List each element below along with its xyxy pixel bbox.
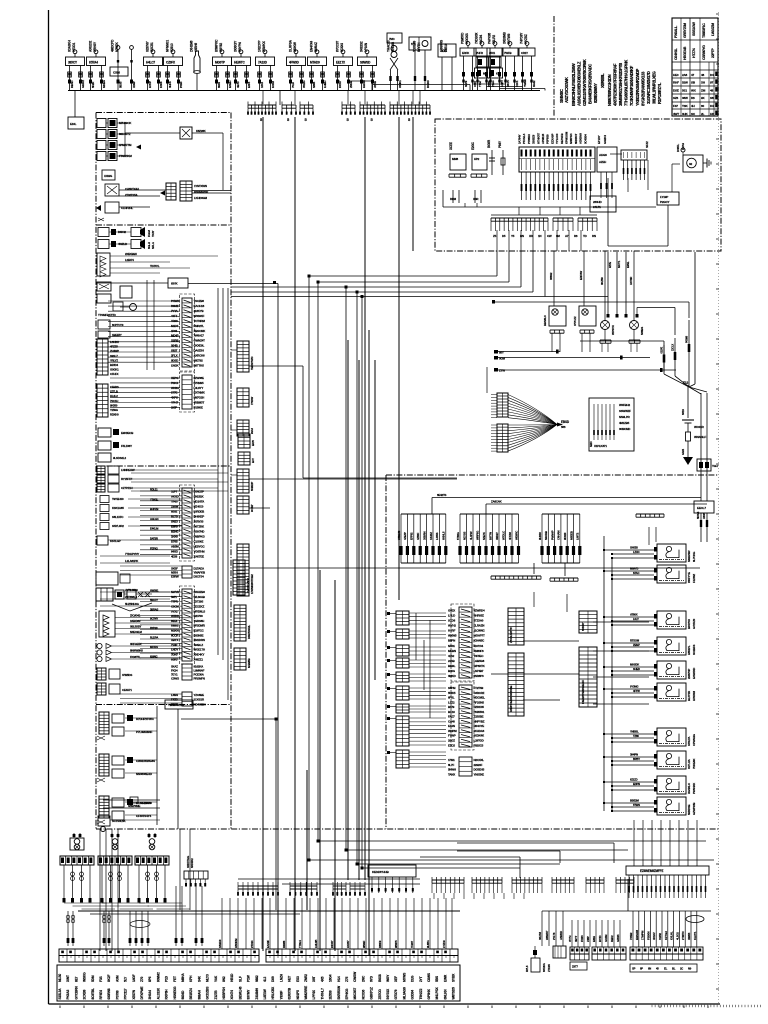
svg-text:YRLYZ: YRLYZ	[110, 358, 118, 362]
svg-text:9ZH0C0: 9ZH0C0	[194, 504, 204, 508]
svg-text:S8WSD: S8WSD	[360, 61, 371, 65]
svg-text:2NC: 2NC	[361, 975, 365, 982]
svg-text:GS2K4: GS2K4	[603, 135, 607, 144]
svg-text:SSS1GW: SSS1GW	[692, 22, 696, 36]
svg-text:38W: 38W	[682, 96, 688, 100]
svg-text:GZWPWB: GZWPWB	[692, 803, 696, 815]
BR connector blocks column1	[387, 611, 446, 768]
svg-text:GP9HX: GP9HX	[427, 988, 431, 999]
svg-text:KZTGH: KZTGH	[664, 931, 668, 940]
svg-text:YNBBL: YNBBL	[630, 730, 639, 734]
svg-text:5T5: 5T5	[411, 42, 416, 46]
right border dotted with ticks	[716, 12, 719, 1004]
top row component F8 (fuse)	[232, 40, 252, 91]
svg-text:39M59R51735HKF52DP7B: 39M59R51735HKF52DP7B	[618, 63, 623, 106]
svg-text:M69YB: M69YB	[630, 567, 638, 571]
svg-text:MH: MH	[483, 72, 487, 76]
svg-text:NN9LPR: NN9LPR	[619, 415, 631, 419]
svg-text:Z15SBE: Z15SBE	[474, 715, 484, 719]
svg-text:E2GC: E2GC	[471, 141, 475, 150]
svg-text:EAX9F: EAX9F	[266, 940, 270, 948]
svg-text:48: 48	[701, 73, 705, 77]
junction tags right area	[494, 350, 676, 373]
wires below combs	[434, 893, 524, 899]
svg-text:LW2K: LW2K	[171, 363, 179, 367]
top row component F11 (fuse)	[308, 41, 328, 91]
svg-text:N01P5: N01P5	[296, 990, 300, 999]
svg-text:XM1DRN: XM1DRN	[194, 638, 205, 642]
svg-text:EECL7: EECL7	[697, 506, 706, 510]
svg-text:YNS5XE: YNS5XE	[474, 772, 485, 776]
section C middle connector ladders	[171, 485, 206, 706]
top row component F2 (fuse)	[87, 41, 107, 91]
svg-text:WGE1TH: WGE1TH	[194, 648, 205, 652]
component drops under trees	[66, 886, 203, 946]
svg-text:G6EX: G6EX	[448, 608, 455, 612]
svg-text:8E7: 8E7	[74, 976, 78, 982]
svg-text:01RXTB: 01RXTB	[288, 987, 292, 999]
svg-text:P05M6: P05M6	[686, 335, 689, 343]
svg-text:B0T7N: B0T7N	[488, 532, 492, 540]
svg-text:7SC1H: 7SC1H	[110, 399, 118, 403]
top row component F20 (fuse_hi)	[502, 31, 519, 90]
svg-text:SHED: SHED	[633, 667, 640, 671]
svg-text:A7: A7	[565, 234, 569, 238]
svg-text:4X87RZ3E99H7F55F8RAF: 4X87RZ3E99H7F55F8RAF	[613, 63, 618, 106]
svg-text:H4LC7: H4LC7	[146, 61, 155, 65]
svg-text:KPH: KPH	[189, 975, 193, 982]
svg-text:AKXD: AKXD	[171, 494, 179, 498]
svg-text:44FT: 44FT	[171, 314, 177, 318]
svg-text:L3L6YY: L3L6YY	[194, 386, 204, 390]
svg-text:2T02TS5A: 2T02TS5A	[125, 193, 138, 197]
svg-text:22920F: 22920F	[474, 763, 483, 767]
svg-text:LW10ZM: LW10ZM	[711, 23, 715, 36]
svg-text:ZECEKZ: ZECEKZ	[194, 604, 205, 608]
svg-text:P1560E: P1560E	[194, 405, 203, 409]
fused wire column groups	[397, 514, 582, 576]
svg-text:RYL5: RYL5	[525, 965, 529, 972]
bottom horizontal feed wires	[238, 879, 420, 884]
svg-text:T0F5EC: T0F5EC	[474, 654, 485, 658]
svg-text:6CCR: 6CCR	[171, 633, 179, 637]
svg-text:TH7HL7: TH7HL7	[320, 988, 324, 1000]
svg-text:GRW4: GRW4	[616, 934, 620, 942]
section C ladder feed wires	[120, 488, 182, 704]
svg-text:0K2F: 0K2F	[107, 975, 111, 982]
svg-text:SZ6: SZ6	[673, 96, 679, 100]
svg-text:C64H1L: C64H1L	[674, 47, 678, 60]
svg-text:ANM1D: ANM1D	[559, 931, 563, 940]
svg-text:RTSGM: RTSGM	[630, 639, 640, 643]
svg-text:5T86G: 5T86G	[456, 532, 460, 540]
svg-text:Z416MH: Z416MH	[255, 987, 259, 999]
svg-text:YWM9: YWM9	[523, 79, 527, 87]
svg-text:KXLHL: KXLHL	[670, 931, 674, 940]
svg-text:NFLA: NFLA	[151, 242, 155, 249]
svg-text:KS06: KS06	[159, 81, 163, 88]
svg-text:XAWG: XAWG	[104, 174, 113, 178]
svg-text:RN: RN	[592, 234, 596, 238]
svg-text:MDCM1L: MDCM1L	[474, 696, 486, 700]
svg-text:RRM: RRM	[450, 197, 457, 201]
svg-text:2M37NP: 2M37NP	[687, 669, 691, 679]
section A lower cluster with connector X1	[96, 170, 231, 221]
right area routing wires	[492, 297, 689, 373]
svg-text:C8CM: C8CM	[171, 604, 179, 608]
svg-text:HE5YGC: HE5YGC	[194, 544, 206, 548]
svg-text:0DB: 0DB	[441, 49, 448, 53]
svg-text:SN131K: SN131K	[194, 494, 205, 498]
svg-text:38XCY: 38XCY	[68, 61, 78, 65]
svg-text:B51RZ4: B51RZ4	[189, 988, 193, 999]
svg-text:F1Z38Z: F1Z38Z	[692, 574, 696, 583]
svg-text:HBDRM: HBDRM	[234, 938, 238, 948]
svg-text:63YK: 63YK	[171, 282, 179, 286]
svg-text:W7DLC: W7DLC	[501, 531, 505, 540]
svg-text:67AC: 67AC	[633, 571, 639, 575]
svg-text:Z46P: Z46P	[586, 936, 590, 942]
svg-text:PS799: PS799	[115, 990, 119, 999]
svg-text:L3M4: L3M4	[171, 693, 178, 697]
svg-text:WP6XTK: WP6XTK	[474, 664, 486, 668]
svg-text:B2NG: B2NG	[171, 529, 179, 533]
svg-text:S4K: S4K	[197, 975, 201, 982]
svg-text:3BYT: 3BYT	[574, 935, 578, 942]
section B internal verticals	[147, 280, 228, 700]
svg-text:9Y3MG: 9Y3MG	[630, 685, 638, 689]
svg-text:YAK: YAK	[214, 975, 218, 982]
svg-text:0MKD: 0MKD	[448, 674, 456, 678]
bottom-right dashed box left border	[385, 475, 387, 829]
svg-text:D6TZRK: D6TZRK	[194, 524, 205, 528]
svg-text:CXL6: CXL6	[113, 71, 120, 75]
svg-text:BL: BL	[672, 967, 676, 971]
svg-text:TF937: TF937	[410, 940, 414, 948]
svg-text:ALS13X: ALS13X	[156, 987, 160, 999]
svg-text:HX337: HX337	[346, 940, 350, 948]
svg-text:M5EEB: M5EEB	[569, 531, 573, 540]
section C bar component row	[96, 588, 152, 611]
svg-text:MHSDK: MHSDK	[630, 663, 639, 667]
svg-text:EWR: EWR	[443, 974, 447, 982]
svg-text:A3XBNH: A3XBNH	[579, 133, 583, 144]
svg-text:E61H: E61H	[592, 936, 596, 942]
svg-text:E9NL: E9NL	[626, 261, 630, 268]
svg-text:GWNZ4T: GWNZ4T	[194, 339, 206, 343]
svg-text:EFF62: EFF62	[410, 532, 414, 540]
svg-text:X9D27: X9D27	[495, 532, 499, 540]
svg-text:7WFB: 7WFB	[504, 51, 512, 55]
svg-text:E8R0: E8R0	[171, 524, 178, 528]
svg-text:MPZWLS: MPZWLS	[194, 609, 206, 613]
svg-text:0GM: 0GM	[499, 357, 506, 361]
svg-text:M9HA: M9HA	[181, 973, 185, 982]
svg-text:E0F5: E0F5	[247, 81, 251, 88]
relay unit column (10 relays)	[603, 544, 696, 815]
ignition coil tree T1	[60, 833, 115, 909]
svg-text:D5: D5	[502, 234, 506, 238]
svg-text:CH019LH3CR: CH019LH3CR	[246, 578, 250, 593]
svg-text:K4: K4	[710, 104, 714, 108]
svg-text:9B99F: 9B99F	[362, 940, 366, 948]
svg-text:PX6ALL: PX6ALL	[674, 25, 678, 38]
svg-text:WPSYX: WPSYX	[611, 325, 615, 335]
svg-text:9C7MY: 9C7MY	[150, 617, 158, 621]
svg-text:1DT29S: 1DT29S	[194, 600, 204, 604]
svg-text:HWX61: HWX61	[150, 589, 159, 593]
svg-text:N8957B8NG1H1DN: N8957B8NG1H1DN	[607, 74, 612, 106]
svg-text:APM115: APM115	[541, 133, 545, 144]
bottom horizontal bus wires	[78, 911, 460, 914]
svg-text:TK3Y: TK3Y	[151, 230, 155, 237]
svg-text:BEWLH6: BEWLH6	[238, 986, 242, 999]
svg-text:FEPX2: FEPX2	[150, 546, 158, 550]
battery B1 with fuse and ground	[681, 385, 706, 465]
top row component F6 (bottle)	[190, 40, 201, 90]
svg-text:6FXL: 6FXL	[448, 696, 455, 700]
svg-text:HP2: HP2	[474, 157, 480, 161]
svg-text:FS9XM: FS9XM	[646, 931, 650, 940]
svg-text:SYBX: SYBX	[452, 973, 456, 982]
svg-text:ER70: ER70	[251, 440, 255, 446]
svg-text:5B3S: 5B3S	[119, 81, 123, 88]
svg-text:6S92: 6S92	[171, 509, 178, 513]
svg-text:3N4PN: 3N4PN	[630, 753, 638, 757]
svg-text:WC01R: WC01R	[694, 425, 705, 429]
svg-text:NH31: NH31	[448, 644, 455, 648]
svg-text:RY15FFF: RY15FFF	[121, 477, 132, 481]
svg-text:E10L: E10L	[70, 122, 77, 126]
svg-text:086S2: 086S2	[549, 272, 553, 280]
svg-text:F82SC5: F82SC5	[474, 743, 484, 747]
svg-text:2TMTN: 2TMTN	[681, 931, 685, 940]
CN9 to bottom bus wire	[542, 879, 711, 911]
svg-text:S8: S8	[710, 96, 714, 100]
wires from middle blocks	[180, 350, 700, 718]
svg-text:LNZH: LNZH	[279, 973, 283, 982]
svg-text:LGB5G8: LGB5G8	[474, 659, 485, 663]
svg-text:E1SN: E1SN	[448, 724, 455, 728]
svg-text:D4027DSF2L: D4027DSF2L	[247, 625, 251, 639]
svg-text:B0PN: B0PN	[448, 639, 455, 643]
svg-text:P1W: P1W	[247, 974, 251, 982]
svg-text:ZRG9: ZRG9	[349, 81, 353, 88]
svg-text:EZ8WEM9ZMFPZ: EZ8WEM9ZMFPZ	[640, 869, 664, 873]
svg-text:0KZ59: 0KZ59	[600, 277, 604, 285]
starter circuit boxes	[694, 393, 718, 542]
svg-text:Z127B: Z127B	[214, 990, 218, 1000]
svg-text:5ZE7K: 5ZE7K	[482, 532, 486, 540]
svg-text:ES3: ES3	[296, 976, 300, 982]
main bottom connector strip mid	[266, 949, 458, 962]
svg-text:RHF: RHF	[673, 81, 679, 85]
svg-text:XSR: XSR	[473, 197, 478, 201]
svg-text:2CXB9: 2CXB9	[83, 990, 87, 1000]
svg-text:Z70: Z70	[140, 977, 144, 982]
svg-text:5NCP7: 5NCP7	[150, 598, 158, 602]
notes separator dashed line	[553, 16, 555, 117]
svg-text:6XK9X2: 6XK9X2	[190, 858, 194, 868]
svg-text:KSK1A85: KSK1A85	[112, 506, 124, 510]
svg-text:2YT: 2YT	[419, 976, 423, 982]
title block table	[672, 18, 718, 116]
svg-text:XEREBL: XEREBL	[600, 73, 605, 88]
section A fuse rows cluster	[97, 119, 223, 191]
svg-text:2SGZ: 2SGZ	[448, 739, 455, 743]
svg-text:N2CXXL: N2CXXL	[474, 758, 485, 762]
svg-text:GHWZ: GHWZ	[81, 80, 85, 88]
svg-text:TSK: TSK	[682, 104, 689, 108]
svg-text:31GNRC19MZM17D: 31GNRC19MZM17D	[646, 71, 651, 104]
svg-text:TD7AYL: TD7AYL	[150, 264, 160, 268]
svg-text:XN147: XN147	[652, 932, 656, 940]
ignition coil tree T2	[98, 833, 153, 909]
svg-text:WHK1: WHK1	[398, 80, 402, 88]
svg-text:11CWNC: 11CWNC	[474, 629, 486, 633]
svg-text:T9YEHS0: T9YEHS0	[112, 497, 124, 501]
svg-text:5DM: 5DM	[91, 975, 95, 982]
svg-text:S15L3A: S15L3A	[58, 988, 62, 1000]
svg-text:7C4KN0WP16XMAD8KF: 7C4KN0WP16XMAD8KF	[629, 65, 634, 106]
svg-text:WB1M8: WB1M8	[397, 530, 401, 540]
svg-text:DAT3R: DAT3R	[150, 537, 158, 541]
svg-text:8NWW9K6: 8NWW9K6	[130, 649, 143, 653]
svg-text:NZRK05: NZRK05	[474, 705, 485, 709]
svg-text:GASM: GASM	[604, 934, 608, 942]
svg-text:RM6S: RM6S	[171, 624, 179, 628]
svg-text:9ZW38E: 9ZW38E	[194, 376, 204, 380]
svg-text:8ABM5B: 8ABM5B	[247, 658, 251, 668]
svg-text:EE1TX: EE1TX	[336, 61, 346, 65]
svg-text:DSE: DSE	[673, 88, 679, 92]
svg-text:TBEWYM7D: TBEWYM7D	[250, 356, 254, 370]
section D bottom rows	[98, 797, 160, 832]
svg-text:793BLZ: 793BLZ	[194, 643, 204, 647]
svg-text:WSKG: WSKG	[83, 972, 87, 982]
svg-text:PNW531: PNW531	[474, 710, 485, 714]
svg-text:7A13D: 7A13D	[258, 61, 268, 65]
svg-text:ND1HTA: ND1HTA	[194, 499, 206, 503]
svg-text:M48PK4: M48PK4	[569, 133, 573, 144]
svg-text:57RM95: 57RM95	[194, 381, 204, 385]
internal wiring of ECU section	[443, 154, 680, 246]
svg-text:48: 48	[710, 88, 714, 92]
svg-text:X46ZZ1: X46ZZ1	[194, 657, 204, 661]
svg-text:ZH4WP: ZH4WP	[110, 349, 119, 353]
svg-text:9K550: 9K550	[110, 403, 118, 407]
svg-text:CH3RTX4H: CH3RTX4H	[125, 187, 139, 191]
svg-text:70L6: 70L6	[291, 82, 295, 88]
svg-text:KP: KP	[496, 72, 500, 76]
wire drops to main bottom strip	[218, 898, 452, 949]
svg-text:AGLG4: AGLG4	[150, 517, 159, 521]
svg-text:SSWWZF: SSWWZF	[619, 409, 631, 413]
svg-text:P2GCY: P2GCY	[660, 200, 669, 204]
bottom wide component box	[368, 865, 416, 893]
svg-text:0WZG: 0WZG	[302, 80, 306, 88]
svg-text:XCEE: XCEE	[449, 142, 453, 150]
svg-text:ZEM7: ZEM7	[633, 643, 640, 647]
svg-text:D46FL: D46FL	[676, 144, 680, 152]
svg-text:WC7F: WC7F	[506, 79, 510, 87]
svg-text:3SBRN: 3SBRN	[422, 531, 426, 540]
svg-text:RLDPA: RLDPA	[150, 636, 158, 640]
svg-text:TGH: TGH	[712, 464, 718, 468]
svg-text:C1G00Z: C1G00Z	[194, 539, 204, 543]
svg-text:01TLXA: 01TLXA	[687, 758, 691, 769]
svg-text:E12: E12	[683, 381, 688, 385]
svg-text:38LWL1RMP2LXEG: 38LWL1RMP2LXEG	[652, 71, 657, 104]
staircase wire runs from ECU to bottom connectors	[231, 251, 714, 870]
svg-text:3BRAS: 3BRAS	[150, 607, 159, 611]
ECU main connector box U1	[518, 131, 596, 200]
svg-text:EPHKG: EPHKG	[345, 988, 349, 999]
svg-text:YBNWCLSS: YBNWCLSS	[168, 703, 184, 707]
svg-text:BN: BN	[520, 234, 524, 238]
svg-text:DH8XEP: DH8XEP	[194, 514, 205, 518]
top row component F19 (fuse_hi)	[487, 33, 504, 91]
svg-text:WXAP7T: WXAP7T	[474, 634, 485, 638]
svg-text:RER2: RER2	[610, 935, 614, 942]
svg-text:B04YK0: B04YK0	[687, 619, 691, 629]
svg-text:BLTD: BLTD	[171, 514, 178, 518]
svg-text:H551PL: H551PL	[687, 645, 691, 655]
svg-text:9XDK4K: 9XDK4K	[474, 734, 485, 738]
section C top component rows	[97, 466, 228, 545]
svg-text:MG0TP: MG0TP	[215, 61, 225, 65]
bottom label box left	[57, 965, 460, 1001]
bottom right corner wires	[420, 829, 614, 878]
svg-text:P786RX: P786RX	[527, 134, 531, 144]
svg-text:4FW9D: 4FW9D	[289, 61, 300, 65]
svg-text:ERF3W: ERF3W	[579, 271, 583, 280]
svg-text:WRF6G: WRF6G	[475, 531, 479, 540]
section B switch cluster	[97, 282, 137, 338]
svg-text:M1KN: M1KN	[171, 628, 179, 632]
svg-text:L2E074: L2E074	[125, 258, 134, 262]
svg-text:1YNTXWN: 1YNTXWN	[194, 184, 207, 188]
svg-text:18WH0: 18WH0	[218, 939, 222, 948]
top-right dashed box	[435, 119, 721, 251]
svg-text:H14: H14	[337, 976, 341, 982]
svg-text:YP60: YP60	[171, 499, 178, 503]
svg-text:LPF4X: LPF4X	[312, 989, 316, 999]
svg-text:XD9P: XD9P	[132, 81, 136, 88]
svg-text:9882: 9882	[255, 975, 259, 982]
svg-text:0ZM70ME: 0ZM70ME	[128, 804, 140, 808]
svg-text:LHBH: LHBH	[323, 81, 327, 88]
svg-text:FTWP: FTWP	[448, 734, 456, 738]
svg-text:586: 586	[561, 425, 566, 429]
svg-text:LHLD: LHLD	[448, 613, 455, 617]
svg-text:LGBY: LGBY	[500, 80, 504, 87]
svg-text:XWT: XWT	[66, 975, 70, 982]
svg-text:RF2SNS: RF2SNS	[474, 700, 485, 704]
svg-text:24SB: 24SB	[448, 659, 455, 663]
svg-text:YKBDZRN35MRZWDP: YKBDZRN35MRZWDP	[635, 68, 640, 106]
svg-text:TZ86: TZ86	[633, 734, 639, 738]
svg-text:W6WXT: W6WXT	[545, 930, 549, 940]
svg-text:XP: XP	[632, 967, 636, 971]
lower connector strip inside ECU section	[491, 215, 597, 238]
connector strip U3	[621, 141, 649, 180]
svg-text:MEBN: MEBN	[448, 649, 456, 653]
svg-text:CZ0FX: CZ0FX	[166, 61, 176, 65]
svg-text:AT80X: AT80X	[630, 613, 638, 617]
svg-text:C8WS: C8WS	[427, 972, 431, 982]
svg-text:36LYM: 36LYM	[538, 931, 542, 940]
